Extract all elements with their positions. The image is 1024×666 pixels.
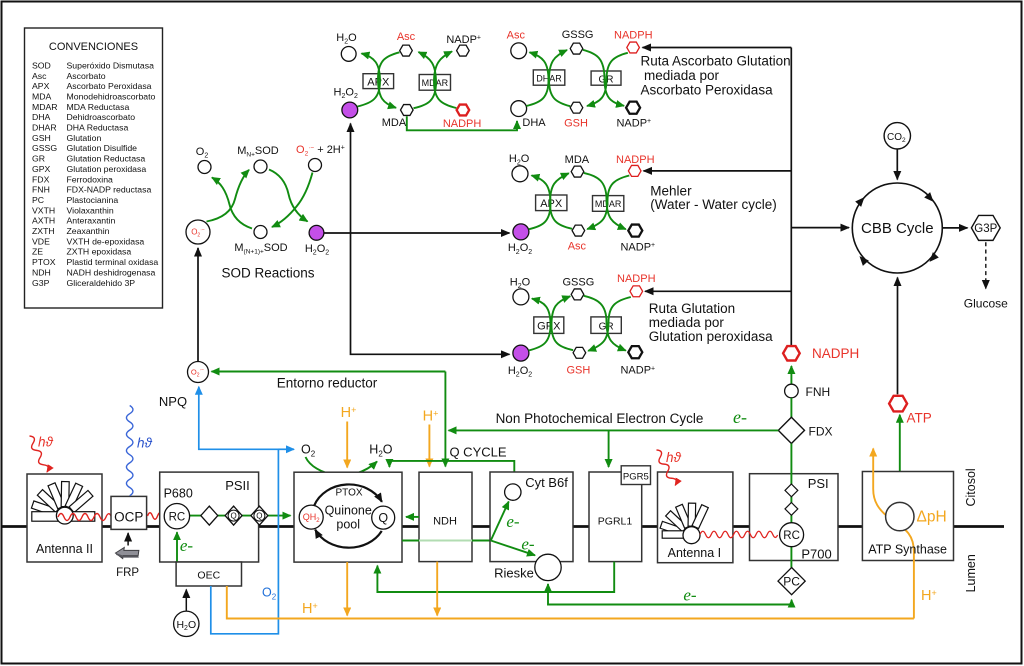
svg-text:G3P: G3P bbox=[974, 223, 997, 235]
PSII box bbox=[160, 472, 259, 562]
SOD O2 circle bbox=[198, 161, 211, 174]
OEC box bbox=[176, 562, 241, 586]
SOD green curve superoxide to MN+1SOD bbox=[272, 173, 313, 228]
c2 green curve GSSG to NADP+ bbox=[583, 50, 624, 106]
svg-text:GSSG: GSSG bbox=[563, 276, 595, 288]
green O2 to H2O arc over pool bbox=[306, 457, 378, 475]
svg-text:NDH: NDH bbox=[433, 516, 457, 528]
svg-text:NPQ: NPQ bbox=[159, 394, 187, 409]
svg-text:PTOX: PTOX bbox=[335, 488, 362, 499]
CBB cycle circle bbox=[852, 183, 942, 273]
svg-text:NADPH: NADPH bbox=[812, 346, 859, 361]
blue arrow to O2 bbox=[278, 448, 294, 450]
svg-text:CBB Cycle: CBB Cycle bbox=[861, 220, 934, 237]
wire CO2 to CBB bbox=[896, 149, 898, 180]
FDX diamond bbox=[778, 417, 804, 443]
svg-text:Q: Q bbox=[230, 512, 236, 521]
svg-text:Monodehidroascorbato: Monodehidroascorbato bbox=[67, 92, 156, 102]
green wire FDX down through PSI bbox=[790, 444, 792, 568]
orange arrow NDH to lumen bbox=[436, 562, 438, 616]
green arrow junction to Rieske bbox=[491, 541, 535, 556]
svg-text:RC: RC bbox=[169, 512, 186, 524]
NADPH output hexagon bold red bbox=[783, 346, 800, 360]
svg-text:e-: e- bbox=[733, 407, 747, 427]
svg-text:VDE: VDE bbox=[32, 236, 50, 246]
c3 GR box bbox=[591, 317, 621, 334]
svg-text:Glutation Reductasa: Glutation Reductasa bbox=[67, 154, 146, 164]
svg-text:MDAR: MDAR bbox=[32, 102, 58, 112]
SOD superoxide product circle bbox=[309, 159, 322, 172]
Antenna II bar bbox=[32, 512, 95, 522]
c3 GSSG hexagon bbox=[571, 289, 584, 300]
svg-text:Ascorbato Peroxidasa: Ascorbato Peroxidasa bbox=[641, 83, 774, 98]
c3 green curve GSSG to NADP+ bbox=[584, 296, 626, 351]
FRP gray arrow icon bbox=[115, 548, 141, 559]
svg-text:ZE: ZE bbox=[32, 247, 43, 257]
svg-text:PGRL1: PGRL1 bbox=[598, 516, 633, 528]
wire H2O2 SOD to Mehler bbox=[324, 232, 509, 234]
svg-text:FNH: FNH bbox=[806, 385, 831, 399]
Antenna II hub circle bbox=[56, 507, 73, 524]
c1 H2O2 purple circle bbox=[342, 102, 358, 118]
svg-text:Asc: Asc bbox=[32, 71, 47, 81]
green wire down to NDH bbox=[444, 372, 446, 467]
blue wire OEC down right up to NPQ bbox=[199, 387, 279, 634]
CBB circle arrowheads bbox=[855, 194, 867, 206]
H2O circle PSII bbox=[174, 611, 199, 636]
svg-text:Q CYCLE: Q CYCLE bbox=[449, 444, 506, 459]
svg-text:MDA: MDA bbox=[32, 92, 52, 102]
svg-text:APX: APX bbox=[540, 198, 563, 210]
svg-text:NADPH: NADPH bbox=[617, 273, 656, 285]
svg-text:DHAR: DHAR bbox=[32, 123, 57, 133]
PC diamond bbox=[778, 568, 805, 595]
svg-text:SOD: SOD bbox=[32, 60, 51, 70]
mh MDA hexagon bbox=[571, 166, 584, 177]
mh H2O circle bbox=[512, 166, 528, 182]
red photon squiggle to Antenna I bbox=[654, 448, 679, 486]
red photon squiggle to Antenna II bbox=[27, 435, 50, 474]
Antenna I bar bbox=[662, 531, 688, 538]
svg-text:MN+SOD: MN+SOD bbox=[237, 145, 279, 159]
PSII diamond 2 with Q bbox=[225, 506, 242, 525]
svg-text:PTOX: PTOX bbox=[32, 257, 56, 267]
c3 green curve H2O2 to H2O bbox=[529, 299, 551, 351]
c2 GSSG hexagon bbox=[570, 43, 583, 54]
svg-text:ATP Synthase: ATP Synthase bbox=[868, 542, 947, 556]
wire CBB to G3P bbox=[942, 227, 967, 229]
Antenna II blades bbox=[31, 482, 93, 517]
c2 DHA circle bbox=[511, 101, 527, 117]
svg-text:e-: e- bbox=[180, 536, 194, 555]
svg-text:PSI: PSI bbox=[808, 476, 829, 491]
svg-text:Glutation Disulfide: Glutation Disulfide bbox=[67, 143, 138, 153]
svg-text:MDA: MDA bbox=[565, 154, 590, 166]
orange arrow into NDH bbox=[428, 425, 430, 467]
c2 DHAR box bbox=[533, 70, 565, 85]
mh NADPH hexagon thin red bbox=[628, 165, 641, 176]
green e- arrow OEC to RC bbox=[176, 532, 178, 562]
c2 green curve GSH to GSSG bbox=[549, 50, 570, 106]
svg-text:GSH: GSH bbox=[32, 133, 51, 143]
svg-text:Quinone: Quinone bbox=[325, 504, 372, 518]
PGR5 box bbox=[621, 466, 650, 485]
c1 NADP+ hexagon bbox=[457, 45, 470, 56]
green branch to PGRL1 bbox=[608, 430, 610, 467]
c2 Asc circle bbox=[511, 43, 527, 59]
PSI diamond 1 bbox=[785, 484, 798, 497]
FNH circle bbox=[785, 384, 799, 398]
wire trunk to CBB bbox=[791, 227, 849, 229]
mh green curve H2O2 to H2O bbox=[529, 175, 551, 229]
c3 NADP+ hexagon bold bbox=[628, 346, 642, 358]
green arrow junction to b6f circle bbox=[491, 502, 509, 541]
red excitation wave Antenna II to OCP bbox=[58, 514, 111, 521]
Antenna I box bbox=[658, 472, 733, 563]
black top arc QH2 to Q bbox=[314, 484, 382, 505]
ATP hexagon bold red bbox=[889, 396, 907, 412]
black arrow FRP to OCP bbox=[127, 533, 129, 546]
green arrow ATPsynthase to ATP bbox=[899, 415, 901, 503]
G3P hexagon bbox=[971, 215, 1000, 240]
svg-text:Q: Q bbox=[378, 511, 388, 525]
svg-text:Antenna I: Antenna I bbox=[668, 546, 722, 560]
svg-text:hϑ: hϑ bbox=[666, 450, 682, 465]
svg-text:Non Photochemical Electron Cyc: Non Photochemical Electron Cycle bbox=[496, 411, 704, 426]
green arrow NDH to Q bbox=[406, 516, 419, 518]
svg-text:DHA: DHA bbox=[522, 117, 546, 129]
svg-text:Ruta Ascorbato Glutation: Ruta Ascorbato Glutation bbox=[641, 54, 791, 69]
svg-text:e-: e- bbox=[683, 586, 697, 605]
svg-text:PC: PC bbox=[783, 575, 800, 589]
svg-text:NADP+: NADP+ bbox=[446, 34, 481, 46]
Antenna I blades bbox=[660, 503, 708, 536]
svg-text:GSH: GSH bbox=[564, 118, 588, 130]
svg-text:Glutation peroxidasa: Glutation peroxidasa bbox=[67, 164, 147, 174]
svg-text:P700: P700 bbox=[801, 547, 831, 562]
red excitation wave OCP to RC bbox=[148, 513, 168, 520]
Q circle bbox=[372, 506, 395, 529]
svg-text:hϑ: hϑ bbox=[137, 436, 153, 451]
c1 green curve MDA to Asc bbox=[414, 52, 437, 108]
SOD O2.- substrate circle bbox=[186, 220, 210, 244]
svg-text:Zeaxanthin: Zeaxanthin bbox=[67, 226, 110, 236]
svg-text:VXTH: VXTH bbox=[32, 205, 55, 215]
orange H+ path through ATP synthase bbox=[873, 449, 914, 619]
svg-text:Plastid terminal oxidasa: Plastid terminal oxidasa bbox=[67, 257, 159, 267]
svg-text:Violaxanthin: Violaxanthin bbox=[67, 205, 114, 215]
SOD MN+1SOD circle bbox=[254, 226, 267, 239]
svg-text:NADPH: NADPH bbox=[614, 29, 653, 41]
mh green curve NADPH to Asc bbox=[587, 176, 629, 230]
svg-text:NADPH: NADPH bbox=[616, 154, 655, 166]
svg-text:Plastocianina: Plastocianina bbox=[67, 195, 119, 205]
wire NADPH feed to cycle3 bbox=[645, 290, 791, 292]
svg-text:MDA: MDA bbox=[382, 117, 407, 129]
svg-text:ZXTH: ZXTH bbox=[32, 226, 55, 236]
mh NADP+ hexagon bold bbox=[628, 225, 642, 237]
c1 H2O circle bbox=[341, 47, 356, 62]
svg-text:DHA Reductasa: DHA Reductasa bbox=[67, 123, 129, 133]
green wire non-photochemical electron cycle bbox=[449, 429, 779, 431]
ATP synthase box bbox=[862, 472, 953, 561]
mh green curve MDA to NADP+ bbox=[584, 173, 626, 229]
svg-text:NADP+: NADP+ bbox=[620, 241, 655, 253]
svg-text:OCP: OCP bbox=[114, 510, 143, 525]
mh MDAR box bbox=[593, 196, 624, 212]
Antenna I hub circle bbox=[683, 527, 700, 544]
orange wire OEC down bbox=[227, 586, 914, 619]
PSI box bbox=[750, 474, 839, 561]
svg-text:PGR5: PGR5 bbox=[623, 471, 649, 482]
c3 green curve NADPH to GSH bbox=[588, 297, 631, 351]
orange arrow pool to lumen bbox=[346, 562, 348, 615]
green Entorno reductor arrow bbox=[212, 371, 446, 373]
c2 GR box bbox=[591, 71, 621, 85]
c2 green curve DHA to Asc bbox=[526, 52, 548, 106]
c3 H2O circle bbox=[513, 289, 529, 305]
lower O2.- circle bbox=[188, 362, 209, 383]
svg-text:Asc: Asc bbox=[397, 31, 416, 43]
svg-text:Lumen: Lumen bbox=[964, 554, 978, 592]
wire NADPH trunk vertical bbox=[790, 48, 792, 346]
svg-text:Gliceraldehido 3P: Gliceraldehido 3P bbox=[67, 278, 136, 288]
svg-text:Ascorbato: Ascorbato bbox=[67, 71, 106, 81]
svg-text:hϑ: hϑ bbox=[38, 435, 54, 450]
svg-text:Ascorbato Peroxidasa: Ascorbato Peroxidasa bbox=[67, 81, 152, 91]
green arrow FNH to NADPH bbox=[790, 366, 792, 384]
SOD green curve MN+SOD to H2O2 bbox=[269, 170, 308, 222]
svg-text:Cyt B6f: Cyt B6f bbox=[525, 475, 568, 490]
green wire RC to quinone pool bbox=[190, 515, 291, 517]
svg-text:Entorno reductor: Entorno reductor bbox=[277, 375, 378, 390]
c3 NADPH hexagon thin red bbox=[630, 286, 643, 297]
blue photon coil bbox=[126, 406, 133, 496]
c1 Asc hexagon bbox=[400, 45, 413, 56]
svg-text:NADP+: NADP+ bbox=[620, 365, 655, 377]
svg-text:(Water - Water cycle): (Water - Water cycle) bbox=[650, 197, 777, 212]
svg-text:mediada por: mediada por bbox=[644, 68, 720, 83]
svg-text:AXTH: AXTH bbox=[32, 216, 55, 226]
c3 H2O2 purple circle bbox=[513, 345, 529, 361]
svg-text:Antenna II: Antenna II bbox=[36, 542, 93, 556]
svg-text:APX: APX bbox=[32, 81, 50, 91]
svg-text:GSSG: GSSG bbox=[32, 143, 57, 153]
SOD green curve O2.- to MN+SOD bbox=[207, 170, 250, 222]
PSII diamond 3 with Q bbox=[251, 506, 268, 525]
orange arrow into pool bbox=[346, 422, 348, 468]
black bottom arc Q to QH2 bbox=[315, 530, 382, 548]
svg-text:Ferrodoxina: Ferrodoxina bbox=[67, 174, 114, 184]
wire green MDA to DHA bbox=[407, 116, 517, 130]
svg-text:CONVENCIONES: CONVENCIONES bbox=[49, 41, 138, 53]
QH2 circle bbox=[299, 505, 323, 529]
svg-text:VXTH de-epoxidasa: VXTH de-epoxidasa bbox=[67, 236, 145, 246]
green wire Rieske to PC bbox=[548, 592, 792, 605]
NDH box bbox=[419, 472, 472, 561]
PSI RC circle bbox=[780, 523, 804, 547]
svg-text:GSSG: GSSG bbox=[562, 29, 594, 41]
SOD H2O2 purple circle bbox=[309, 225, 324, 240]
svg-text:ΔpH: ΔpH bbox=[917, 509, 947, 526]
ATP synthase circle bbox=[886, 502, 914, 530]
svg-text:Glutation peroxidasa: Glutation peroxidasa bbox=[649, 329, 773, 344]
svg-text:ATP: ATP bbox=[907, 411, 932, 426]
svg-text:DHA: DHA bbox=[32, 112, 51, 122]
c1 NADPH hexagon bold red bbox=[457, 105, 470, 116]
svg-text:FDX: FDX bbox=[809, 424, 833, 438]
svg-text:mediada por: mediada por bbox=[649, 315, 725, 330]
svg-text:ZXTH epoxidasa: ZXTH epoxidasa bbox=[67, 247, 132, 257]
pale green wire through NDH bbox=[419, 540, 472, 542]
svg-text:GSH: GSH bbox=[566, 364, 590, 376]
legend box CONVENCIONES bbox=[25, 28, 163, 308]
svg-text:e-: e- bbox=[521, 535, 535, 554]
legend rows bbox=[32, 60, 158, 287]
c1 green curve Asc to MDA bbox=[378, 52, 400, 108]
svg-text:Asc: Asc bbox=[507, 29, 526, 41]
green wire PGRL1 to pool and Rieske bbox=[377, 562, 614, 592]
svg-text:pool: pool bbox=[336, 518, 360, 532]
svg-text:Q: Q bbox=[256, 512, 262, 521]
c2 NADP+ hexagon bold bbox=[626, 102, 640, 114]
svg-text:Rieske: Rieske bbox=[494, 565, 534, 580]
c1 green curve NADPH to NADP+ bbox=[434, 51, 456, 108]
c1 MDA hexagon bbox=[401, 105, 414, 116]
svg-text:PSII: PSII bbox=[225, 478, 250, 493]
PSI diamond 2 bbox=[785, 503, 798, 516]
svg-text:NDH: NDH bbox=[32, 267, 51, 277]
mh APX box bbox=[536, 195, 567, 211]
CO2 circle bbox=[884, 123, 910, 149]
svg-text:FDX-NADP reductasa: FDX-NADP reductasa bbox=[67, 185, 152, 195]
svg-text:OEC: OEC bbox=[197, 569, 220, 581]
svg-text:NADH deshidrogenasa: NADH deshidrogenasa bbox=[67, 267, 156, 277]
svg-text:Dehidroascorbato: Dehidroascorbato bbox=[67, 112, 136, 122]
svg-text:NADP+: NADP+ bbox=[616, 118, 651, 130]
svg-text:P680: P680 bbox=[164, 487, 193, 501]
svg-text:G3P: G3P bbox=[32, 278, 50, 288]
svg-text:Superóxido Dismutasa: Superóxido Dismutasa bbox=[67, 60, 155, 70]
PGRL1 box bbox=[589, 472, 642, 562]
svg-text:PC: PC bbox=[32, 195, 44, 205]
c2 GSH hexagon bbox=[570, 102, 583, 113]
green wire NDH right to junction bbox=[472, 540, 491, 542]
c1 APX box bbox=[363, 74, 394, 89]
c2 NADPH hexagon thin red bbox=[627, 42, 640, 53]
c1 MDAR box bbox=[419, 75, 450, 91]
svg-text:Citosol: Citosol bbox=[964, 468, 978, 506]
svg-text:SOD Reactions: SOD Reactions bbox=[221, 266, 314, 281]
svg-text:FNH: FNH bbox=[32, 185, 50, 195]
mh green curve Asc to MDA bbox=[550, 173, 572, 229]
OCP box bbox=[111, 496, 147, 529]
wire H2O2 down then right to GPX cycle bbox=[351, 233, 510, 354]
red excitation wave Antenna I to PSI RC bbox=[700, 531, 778, 538]
Cyt B6f box bbox=[490, 472, 573, 562]
c2 green curve NADPH to GSH bbox=[587, 53, 628, 106]
PSII diamond 1 bbox=[201, 506, 218, 525]
svg-text:Anteraxantin: Anteraxantin bbox=[67, 216, 116, 226]
green wire FDX to FNH bbox=[790, 398, 792, 418]
SOD MN+SOD circle bbox=[254, 160, 267, 173]
svg-text:NADPH: NADPH bbox=[443, 118, 482, 130]
wire NADPH feed to cycle2 bbox=[643, 47, 792, 49]
mh Asc hexagon bbox=[572, 225, 585, 236]
green wire pool to NDH left bbox=[402, 540, 419, 542]
svg-text:GR: GR bbox=[32, 154, 45, 164]
Cyt B6f circle bbox=[505, 484, 521, 500]
svg-text:e-: e- bbox=[506, 512, 520, 531]
svg-text:Glutation: Glutation bbox=[67, 133, 102, 143]
c3 GPX box bbox=[534, 317, 564, 334]
SOD green curve MN+1SOD to O2 bbox=[212, 178, 252, 229]
svg-text:O2·− + 2H+: O2·− + 2H+ bbox=[296, 144, 345, 158]
wire NADPH feed to Mehler bbox=[644, 170, 792, 172]
Quinone pool box bbox=[294, 472, 402, 562]
svg-text:FDX: FDX bbox=[32, 174, 50, 184]
green Q CYCLE wire CytB6f circle to pool bbox=[389, 461, 514, 484]
c3 GSH hexagon bbox=[573, 347, 586, 358]
svg-text:RC: RC bbox=[783, 530, 800, 542]
svg-text:FRP: FRP bbox=[116, 567, 139, 579]
black arrow H2O to OEC bbox=[185, 590, 187, 611]
green arrow up into Rieske bbox=[547, 584, 549, 592]
wire superoxide from PSII up to SOD bbox=[197, 248, 199, 362]
wire H2O2 up to APX cycle 1 bbox=[350, 124, 352, 234]
wire ATP to CBB bbox=[897, 278, 899, 395]
Rieske circle bbox=[535, 554, 561, 580]
svg-text:Ruta Glutation: Ruta Glutation bbox=[649, 301, 735, 316]
c1 green curve H2O2 to H2O bbox=[358, 53, 381, 106]
svg-text:GPX: GPX bbox=[537, 320, 561, 332]
c3 green curve GSH to GSSG bbox=[552, 296, 574, 350]
Antenna II box bbox=[27, 474, 102, 562]
mh H2O2 purple circle bbox=[513, 224, 529, 240]
PSII RC circle bbox=[164, 504, 189, 529]
svg-text:Asc: Asc bbox=[568, 241, 587, 253]
svg-text:MDA Reductasa: MDA Reductasa bbox=[67, 102, 130, 112]
dashed wire G3P to Glucose bbox=[985, 242, 987, 288]
svg-text:Glucose: Glucose bbox=[964, 297, 1008, 311]
membrane line segments bbox=[3, 525, 1005, 528]
svg-text:GPX: GPX bbox=[32, 164, 51, 174]
